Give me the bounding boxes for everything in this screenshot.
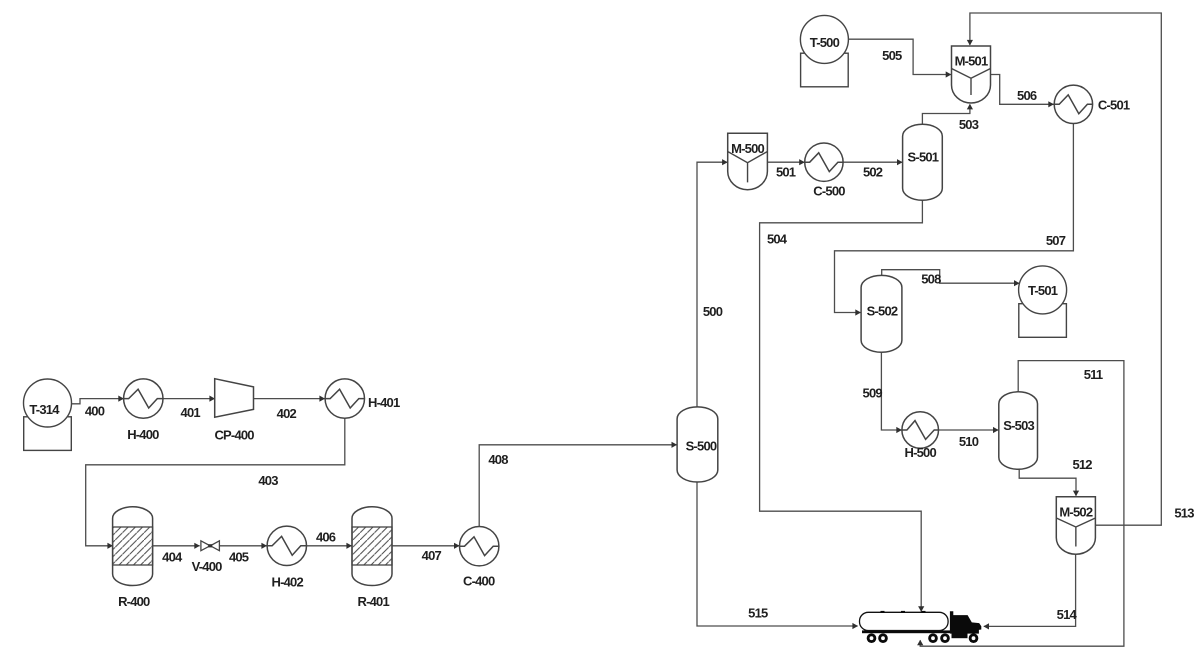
cooler C-501 <box>1054 85 1092 123</box>
tank T-500 <box>800 15 848 86</box>
wire stream 500: S-500 to M-500 <box>697 159 728 407</box>
stream label 404 <box>162 549 183 564</box>
svg-text:404: 404 <box>162 549 183 564</box>
label H-402 <box>271 575 303 590</box>
label V-400 <box>192 559 223 574</box>
heat exchanger H-500 <box>902 412 939 449</box>
wire stream 405: V-400 to H-402 <box>219 543 267 549</box>
stream label 511 <box>1084 367 1103 382</box>
svg-text:401: 401 <box>181 405 201 420</box>
stream label 513 <box>1174 506 1194 521</box>
tank T-314 <box>24 379 72 450</box>
separator S-500 <box>677 407 718 482</box>
stream label 503 <box>959 117 979 132</box>
separator S-503 <box>999 392 1038 470</box>
stream label 507 <box>1046 233 1066 248</box>
stream label 500 <box>703 304 723 319</box>
svg-text:512: 512 <box>1072 457 1092 472</box>
label C-500 <box>813 183 845 198</box>
wire stream 402: CP-400 to H-401 <box>254 396 326 402</box>
heat exchanger H-401 <box>325 379 364 418</box>
wire stream 501: M-500 to C-500 <box>767 159 804 165</box>
svg-text:R-400: R-400 <box>118 594 150 609</box>
stream label 504 <box>767 232 788 247</box>
svg-text:502: 502 <box>863 164 883 179</box>
reactor R-401 <box>352 507 392 586</box>
svg-text:T-500: T-500 <box>810 35 840 50</box>
svg-text:400: 400 <box>85 404 105 419</box>
heat exchanger H-400 <box>124 379 163 418</box>
tanker truck <box>860 611 982 643</box>
stream label 408 <box>488 452 508 467</box>
svg-text:CP-400: CP-400 <box>214 428 254 443</box>
wire stream 403: H-401 to R-400 <box>86 418 345 549</box>
svg-text:506: 506 <box>1017 88 1037 103</box>
svg-text:407: 407 <box>422 548 442 563</box>
wire stream 505: T-500 to M-501 <box>849 39 952 77</box>
wire stream 506: M-501 to C-501 <box>991 75 1054 108</box>
wire stream 406: H-402 to R-401 <box>307 543 352 549</box>
label C-400 <box>463 574 495 589</box>
svg-text:405: 405 <box>229 549 249 564</box>
wire stream 404: R-400 to V-400 <box>153 543 200 549</box>
wire stream 512: S-503 to M-502 <box>1019 469 1079 496</box>
wire stream 401: H-400 to CP-400 <box>163 396 215 402</box>
label C-501 <box>1098 98 1130 113</box>
wire stream 400: T-314 to H-400 <box>71 396 124 404</box>
svg-text:S-503: S-503 <box>1003 418 1034 433</box>
svg-text:M-501: M-501 <box>955 54 988 69</box>
svg-text:M-502: M-502 <box>1059 504 1092 519</box>
svg-text:509: 509 <box>863 385 883 400</box>
wire stream 408: C-400 to S-500 <box>479 442 677 527</box>
wire stream 513: M-502 to M-501 <box>967 13 1162 525</box>
stream label 514 <box>1057 607 1078 622</box>
wire stream 407: R-401 to C-400 <box>392 543 460 549</box>
label H-400 <box>127 427 159 442</box>
wire stream 514: M-502 to truck right <box>983 554 1075 629</box>
wire stream 510: H-500 to S-503 <box>939 427 999 433</box>
svg-text:H-400: H-400 <box>127 427 159 442</box>
separator S-502 <box>861 275 902 352</box>
stream label 510 <box>959 434 979 449</box>
svg-text:H-500: H-500 <box>904 445 936 460</box>
stream label 506 <box>1017 88 1037 103</box>
wire stream 509: S-502 to H-500 <box>881 353 902 434</box>
wire stream 511: S-503 to truck bottom <box>917 361 1124 647</box>
svg-text:T-501: T-501 <box>1028 283 1058 298</box>
svg-text:510: 510 <box>959 434 979 449</box>
label H-500 <box>904 445 936 460</box>
cooler C-500 <box>805 143 843 181</box>
svg-text:403: 403 <box>258 473 278 488</box>
svg-text:514: 514 <box>1057 607 1078 622</box>
label R-400 <box>118 594 150 609</box>
label CP-400 <box>214 428 254 443</box>
svg-text:507: 507 <box>1046 233 1066 248</box>
svg-text:508: 508 <box>921 272 941 287</box>
svg-text:501: 501 <box>776 165 796 180</box>
svg-text:H-402: H-402 <box>271 575 303 590</box>
svg-text:505: 505 <box>882 48 902 63</box>
svg-text:S-501: S-501 <box>908 149 939 164</box>
stream label 407 <box>422 548 442 563</box>
svg-text:406: 406 <box>316 530 336 545</box>
stream label 401 <box>181 405 201 420</box>
wire stream 515: S-500 to truck left <box>697 482 858 629</box>
wire stream 507: C-501 to S-502 <box>835 124 1074 316</box>
svg-text:402: 402 <box>277 406 297 421</box>
stream label 405 <box>229 549 249 564</box>
svg-text:S-500: S-500 <box>686 438 717 453</box>
stream label 508 <box>921 272 941 287</box>
stream label 400 <box>85 404 105 419</box>
wire stream 502: C-500 to S-501 <box>843 159 902 165</box>
label R-401 <box>357 594 389 609</box>
svg-text:C-400: C-400 <box>463 574 495 589</box>
compressor CP-400 <box>215 379 254 418</box>
svg-text:504: 504 <box>767 232 788 247</box>
wire stream 508: S-502 to T-501 <box>882 270 1020 287</box>
stream label 501 <box>776 165 796 180</box>
mixer M-500 <box>728 133 768 189</box>
svg-text:V-400: V-400 <box>192 559 223 574</box>
svg-text:C-501: C-501 <box>1098 98 1130 113</box>
svg-text:R-401: R-401 <box>357 594 389 609</box>
tank T-501 <box>1019 266 1067 337</box>
wire stream 503: S-501 to M-501 <box>922 104 973 124</box>
reactor R-400 <box>113 507 153 586</box>
cooler C-400 <box>460 527 499 566</box>
stream label 509 <box>863 385 883 400</box>
stream label 403 <box>258 473 278 488</box>
heat exchanger H-402 <box>267 526 306 565</box>
stream label 402 <box>277 406 297 421</box>
svg-text:H-401: H-401 <box>368 395 400 410</box>
stream label 502 <box>863 164 883 179</box>
stream label 406 <box>316 530 336 545</box>
stream label 505 <box>882 48 902 63</box>
svg-text:511: 511 <box>1084 367 1103 382</box>
svg-text:515: 515 <box>748 606 768 621</box>
mixer M-502 <box>1056 497 1095 554</box>
stream label 515 <box>748 606 768 621</box>
mixer M-501 <box>952 46 991 103</box>
svg-text:T-314: T-314 <box>29 402 60 417</box>
svg-text:S-502: S-502 <box>867 303 898 318</box>
wire stream 504: S-501 to truck top <box>760 201 925 612</box>
valve V-400 <box>201 541 220 551</box>
svg-text:C-500: C-500 <box>813 183 845 198</box>
svg-text:503: 503 <box>959 117 979 132</box>
separator S-501 <box>903 124 943 200</box>
svg-text:513: 513 <box>1174 506 1194 521</box>
svg-text:M-500: M-500 <box>731 141 764 156</box>
stream label 512 <box>1072 457 1092 472</box>
label H-401 <box>368 395 400 410</box>
svg-text:500: 500 <box>703 304 723 319</box>
svg-text:408: 408 <box>488 452 508 467</box>
